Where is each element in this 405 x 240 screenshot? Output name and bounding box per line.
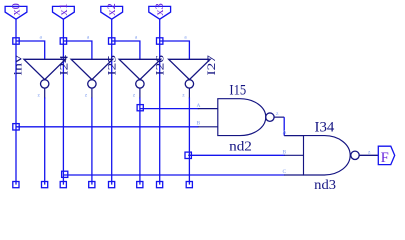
- wire rail x3 vertical: [159, 19, 161, 184]
- svg-text:a: a: [40, 35, 43, 41]
- wire I15 output stub: [274, 116, 284, 118]
- junction square on rail x3: [157, 38, 163, 44]
- svg-text:I25: I25: [105, 55, 119, 76]
- inverter I25 triangle: [71, 59, 113, 79]
- svg-text:z: z: [133, 93, 136, 99]
- pin stub A of I15: [198, 108, 218, 110]
- wire inverter output down: [44, 98, 46, 185]
- svg-text:B: B: [283, 149, 287, 155]
- wire I26 output vertical: [139, 88, 141, 98]
- input port x3: [149, 3, 171, 19]
- svg-text:I34: I34: [315, 119, 335, 135]
- inverter I24 triangle: [24, 59, 65, 79]
- wire rail x2 vertical: [111, 19, 113, 184]
- wire x0 to inverter I24 input: [16, 41, 45, 59]
- svg-text:z: z: [276, 111, 279, 117]
- wire I25 output vertical: [91, 88, 93, 98]
- svg-text:I15: I15: [229, 83, 246, 99]
- wire x1 to I34 input C: [64, 174, 285, 176]
- nand gate I15 bubble: [266, 113, 274, 121]
- wire x2 to inverter I26 input: [112, 41, 140, 59]
- svg-text:A: A: [197, 103, 201, 109]
- output port F: [378, 146, 394, 166]
- svg-text:z: z: [38, 93, 41, 99]
- dangling square I26 out bottom: [137, 182, 143, 188]
- junction square on rail x1: [60, 38, 66, 44]
- svg-text:I24: I24: [56, 55, 70, 76]
- svg-text:I26: I26: [153, 55, 167, 76]
- junction square rail x0 branch: [13, 124, 19, 130]
- svg-text:z: z: [182, 93, 185, 99]
- junction square I26 output branch: [137, 105, 143, 111]
- wire I27 output vertical: [188, 88, 190, 98]
- junction square rail x1 branch: [62, 171, 68, 177]
- input port x2: [101, 3, 123, 19]
- svg-text:z: z: [368, 149, 371, 155]
- inverter I24 bubble: [41, 80, 49, 88]
- input port x0: [5, 3, 27, 19]
- svg-text:x1: x1: [56, 3, 70, 16]
- svg-text:x0: x0: [8, 3, 22, 16]
- svg-text:inv: inv: [11, 55, 25, 76]
- svg-text:nd2: nd2: [229, 138, 252, 153]
- dangling square I24 out bottom: [42, 182, 48, 188]
- inverter I26 triangle: [119, 59, 160, 79]
- dangling square I25 out bottom: [89, 182, 95, 188]
- dangling square rail x0 bottom: [13, 182, 19, 188]
- wire x1 to inverter I25 input: [63, 41, 92, 59]
- inverter I27 triangle: [169, 59, 211, 79]
- inverter I26 bubble: [136, 80, 144, 88]
- wire inverter output down: [91, 98, 93, 185]
- nand gate I34 bubble: [351, 151, 359, 159]
- svg-text:F: F: [381, 150, 389, 166]
- svg-text:A: A: [283, 130, 287, 136]
- nand gate I34 body: [304, 136, 351, 175]
- wire I34 output to port F: [359, 154, 378, 156]
- junction square on rail x0: [13, 38, 19, 44]
- svg-text:z: z: [85, 93, 88, 99]
- dangling square rail x2 bottom: [109, 182, 115, 188]
- junction square I27 output branch: [185, 152, 191, 158]
- svg-text:a: a: [135, 35, 138, 41]
- svg-text:x3: x3: [152, 3, 166, 16]
- inverter I25 bubble: [88, 80, 96, 88]
- wire I24 output vertical: [44, 88, 46, 98]
- dangling square I27 out bottom: [186, 182, 192, 188]
- svg-text:I27: I27: [204, 55, 218, 76]
- wire rail x1 vertical: [62, 19, 64, 184]
- dangling square rail x3 bottom: [157, 182, 163, 188]
- pin stub C of I34: [284, 174, 303, 176]
- svg-text:x2: x2: [104, 3, 118, 16]
- wire I15 output to I34 input A vertical: [283, 117, 285, 135]
- svg-text:B: B: [197, 121, 201, 127]
- svg-text:a: a: [87, 35, 90, 41]
- wire x0 to I15 input B: [16, 126, 199, 128]
- input port x1: [53, 3, 75, 19]
- wire I26 output to I15 input A: [140, 108, 199, 110]
- dangling square rail x1 bottom: [60, 182, 66, 188]
- svg-text:C: C: [283, 169, 287, 175]
- wire inverter output down: [139, 98, 141, 185]
- wire x3 to inverter I27 input: [160, 41, 190, 59]
- wire rail x0 vertical: [15, 19, 17, 184]
- svg-text:a: a: [184, 35, 187, 41]
- inverter I27 bubble: [185, 80, 193, 88]
- pin stub B of I34: [284, 154, 303, 156]
- pin stub B of I15: [198, 126, 218, 128]
- wire inverter output down: [188, 98, 190, 185]
- nand gate I15 body: [218, 99, 266, 136]
- junction square on rail x2: [109, 38, 115, 44]
- wire I27 output to I34 input B: [188, 154, 285, 156]
- svg-text:nd3: nd3: [314, 177, 336, 192]
- pin stub A of I34: [284, 135, 303, 137]
